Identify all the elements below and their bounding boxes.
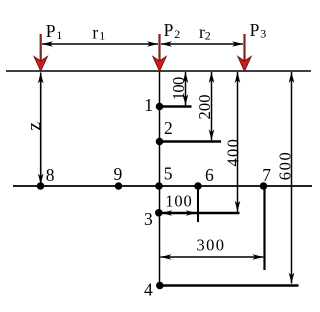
svg-text:100: 100 xyxy=(169,77,188,101)
dimension 600 vertical xyxy=(276,72,295,284)
svg-text:z: z xyxy=(24,122,45,130)
wire: branch at node 4 xyxy=(160,284,299,286)
svg-text:1: 1 xyxy=(144,95,153,115)
dimension 400 vertical xyxy=(224,72,243,212)
svg-text:P: P xyxy=(164,20,174,40)
dimension 100 vertical xyxy=(169,72,189,105)
svg-text:2: 2 xyxy=(174,27,180,41)
node 6 xyxy=(194,182,202,190)
wire: branch at node 1 xyxy=(160,105,192,107)
wire: branch at node 2 xyxy=(160,140,222,142)
wire: main vertical member xyxy=(159,71,161,286)
svg-text:3: 3 xyxy=(144,209,153,229)
svg-text:1: 1 xyxy=(99,29,105,43)
node 2 xyxy=(156,138,164,146)
svg-text:1: 1 xyxy=(56,28,62,42)
svg-text:9: 9 xyxy=(114,164,123,184)
dimension 200 vertical xyxy=(195,72,215,140)
wire: top chord line xyxy=(6,70,311,72)
svg-text:6: 6 xyxy=(205,165,214,185)
load P1 xyxy=(34,34,47,71)
svg-text:600: 600 xyxy=(276,152,295,180)
dimension z xyxy=(24,73,45,185)
wire: branch at node 3 xyxy=(160,212,240,214)
dimension r1 xyxy=(42,22,158,46)
svg-text:5: 5 xyxy=(164,164,173,184)
svg-text:4: 4 xyxy=(144,280,153,300)
load P3 xyxy=(238,34,251,71)
node 9 xyxy=(115,182,123,190)
dimension 100 horizontal xyxy=(161,191,197,216)
svg-text:3: 3 xyxy=(260,26,266,40)
svg-text:8: 8 xyxy=(46,165,55,185)
node 1 xyxy=(156,103,164,111)
svg-text:7: 7 xyxy=(262,165,271,185)
wire: middle chord line xyxy=(13,185,312,187)
wire: drop below node 7 xyxy=(263,186,265,270)
dimension 300 horizontal xyxy=(161,235,264,259)
svg-text:2: 2 xyxy=(164,118,173,138)
node 8 xyxy=(37,182,45,190)
dimension r2 xyxy=(161,22,243,47)
svg-text:2: 2 xyxy=(205,28,211,42)
svg-text:P: P xyxy=(250,20,260,40)
svg-text:r: r xyxy=(92,22,98,42)
svg-text:300: 300 xyxy=(197,235,225,254)
svg-text:200: 200 xyxy=(195,95,214,120)
svg-text:100: 100 xyxy=(165,191,192,210)
node 3 xyxy=(155,209,163,217)
node 5 xyxy=(155,182,163,190)
node 4 xyxy=(156,282,164,290)
wire: drop below node 6 xyxy=(197,186,199,222)
node 7 xyxy=(260,182,268,190)
load P2 xyxy=(153,34,166,71)
svg-text:P: P xyxy=(46,21,56,41)
svg-text:400: 400 xyxy=(224,139,243,167)
